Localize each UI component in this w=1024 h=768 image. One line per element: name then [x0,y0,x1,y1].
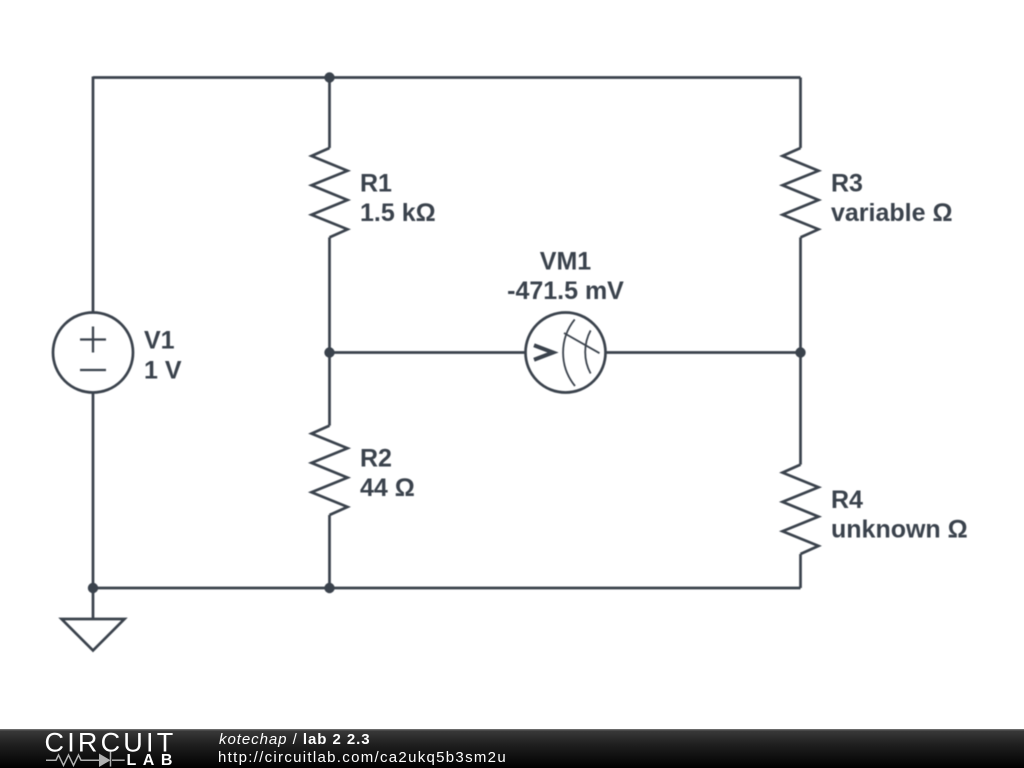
wire left rail upper [92,77,95,313]
svg-text:-471.5 mV: -471.5 mV [507,277,624,305]
VM1 needle [564,333,600,353]
svg-text:R4: R4 [831,486,863,514]
V1 plus sign [80,327,106,353]
wire right rail bottom [799,554,802,588]
junction node bottom left [88,583,98,593]
wire middle left of voltmeter [330,351,526,354]
VM1 meter arc small [585,330,590,373]
footer title [219,731,371,748]
logo diode triangle [99,753,111,767]
svg-text:R3: R3 [831,170,863,198]
wire center rail top [328,78,331,149]
footer url [218,749,507,766]
wire bottom horizontal [93,587,801,590]
svg-text:R2: R2 [360,444,392,472]
VM1 chevron [534,345,553,359]
ground symbol [62,619,125,651]
wire right rail top [799,78,802,149]
logo resistor-diode symbol [46,751,125,766]
junction node bottom center [324,583,334,593]
wire middle right of voltmeter [606,351,801,354]
ground lead [92,588,95,619]
voltmeter VM1 circle [526,313,606,393]
resistor R2 [312,426,348,515]
svg-text:LAB: LAB [127,752,179,768]
svg-text:variable Ω: variable Ω [831,199,953,227]
CircuitLab logo [0,729,190,768]
svg-text:44 Ω: 44 Ω [360,474,415,502]
junction node mid left [324,347,334,357]
wire center rail mid [328,237,331,425]
junction node top center [324,72,334,82]
resistor R4 [783,465,819,554]
wire left rail lower [92,393,95,589]
wire center rail bottom [328,515,331,588]
svg-text:1 V: 1 V [144,357,182,385]
wire top horizontal [93,76,801,79]
junction node mid right [795,347,805,357]
resistor R1 [312,148,348,237]
svg-text:unknown Ω: unknown Ω [831,516,968,544]
wire right rail mid [799,237,802,464]
V1 minus sign [80,369,106,371]
svg-text:VM1: VM1 [540,247,592,275]
footer bar [0,729,1024,768]
VM1 meter arc large [563,319,575,386]
resistor R3 [783,148,819,237]
svg-text:R1: R1 [360,170,392,198]
svg-text:V1: V1 [144,327,175,355]
voltage source V1 circle [53,313,133,393]
svg-text:1.5 kΩ: 1.5 kΩ [360,199,436,227]
